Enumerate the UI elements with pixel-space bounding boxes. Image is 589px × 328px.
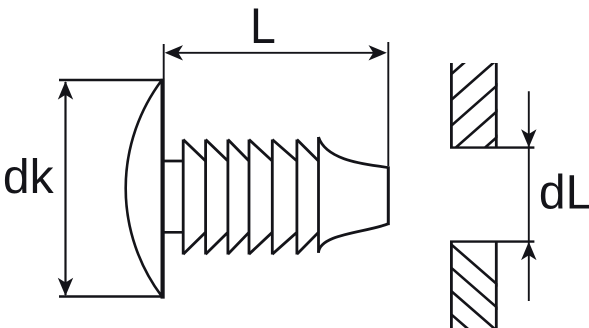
head top edge / dk top extension line (59, 79, 164, 81)
svg-text:dL: dL (539, 167, 589, 220)
thread tooth 5 bottom flank slant (272, 232, 297, 254)
thread tooth 6 bottom flank slant (297, 232, 319, 254)
L dimension right extension line (387, 42, 389, 166)
dL dimension upper line (528, 91, 530, 301)
dL upper arrowhead (points down) (521, 129, 536, 147)
L dimension left arrowhead (165, 45, 183, 60)
upper plate hatching (443, 27, 505, 185)
neck bottom line (164, 231, 184, 234)
thread tooth 2 bottom flank slant (206, 232, 228, 254)
svg-text:dk: dk (3, 151, 55, 204)
svg-text:L: L (250, 0, 276, 54)
lower plate hatching (443, 237, 505, 328)
head bottom edge / dk bottom extension line (59, 295, 164, 297)
thread tooth 3 bottom flank slant (228, 232, 249, 254)
lower plate left edge (450, 242, 453, 328)
thread tooth 4 crest line (248, 140, 251, 255)
head dome arc (126, 81, 162, 297)
thread tooth 2 top flank slant (206, 140, 228, 162)
lower plate right edge (495, 242, 498, 328)
dL lower arrowhead (points up) (521, 242, 536, 260)
thread tooth 6 top flank slant (297, 140, 319, 162)
dk bottom arrowhead (58, 278, 73, 296)
thread tooth 4 top flank slant (249, 140, 272, 162)
thread tooth 3 crest line (226, 140, 229, 255)
thread tooth 3 top flank slant (228, 140, 249, 162)
thread tooth 4 bottom flank slant (249, 232, 272, 254)
screw tip flank bottom curve (319, 224, 389, 253)
screw tip end face (387, 166, 390, 225)
neck top line (164, 160, 184, 163)
L dimension right arrowhead (369, 45, 387, 60)
thread tooth 2 crest line (204, 140, 207, 255)
thread tooth 5 top flank slant (272, 140, 297, 162)
dk top arrowhead (58, 81, 73, 99)
lower plate top edge / dL bottom extension line (450, 240, 534, 242)
thread tooth 1 crest line (182, 140, 185, 255)
dk dimension line (64, 82, 66, 295)
thread tooth 5 crest line (271, 140, 274, 255)
L dimension line (168, 52, 383, 54)
upper plate right edge (495, 63, 498, 147)
upper plate left edge (450, 63, 453, 147)
upper plate bottom edge / dL top extension line (450, 146, 534, 148)
head flat face (right side of head) (161, 79, 165, 299)
thread tooth 7 crest line (317, 137, 320, 253)
screw tip flank top curve (319, 137, 389, 168)
thread tooth 6 crest line (295, 140, 298, 255)
thread tooth 1 bottom flank slant (183, 232, 205, 254)
thread tooth 1 top flank slant (183, 140, 205, 162)
L dimension left extension line (163, 44, 165, 79)
